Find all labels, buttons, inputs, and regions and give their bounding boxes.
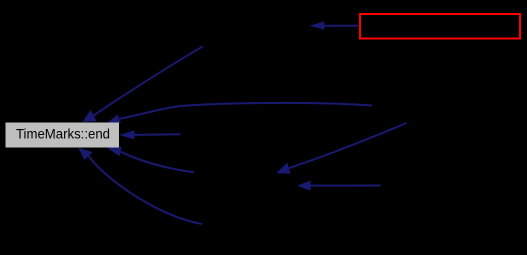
wire: edge E6 horizontal into node B2 right edge [310, 185, 381, 187]
wire: edge E3 horizontal into box right edge [134, 133, 181, 136]
svg-text:TimeMarks::end: TimeMarks::end [16, 127, 110, 143]
wire: edge E1 invisible node A -> TimeMarks::end (top-left) [94, 46, 203, 115]
node: TimeMarks::end (current function, grey) [6, 123, 120, 148]
node: truncated caller (red box, label invisible on black) [360, 14, 520, 39]
arrowhead of edge E5 [276, 163, 291, 174]
wire: edge E7 bottom node -> box bottom-left [89, 156, 203, 224]
wire: edge E2 right column node -> TimeMarks::end (top, long arc) [119, 103, 372, 119]
arrowhead of edge E7 [78, 148, 92, 160]
arrowhead of edge E1 [83, 110, 97, 122]
arrowhead of edge E2 [107, 114, 121, 123]
wire: edge E4 node B2 -> box bottom-right [121, 152, 195, 173]
arrowhead of edge E6 [297, 181, 311, 191]
wire: edge from red box to invisible node A [323, 25, 359, 27]
arrowhead of edge E3 [119, 130, 134, 139]
arrowhead of edge from red box [310, 22, 325, 30]
wire: edge E5 right column node -> node B2 [289, 123, 407, 168]
arrowhead of edge E4 [107, 147, 122, 156]
